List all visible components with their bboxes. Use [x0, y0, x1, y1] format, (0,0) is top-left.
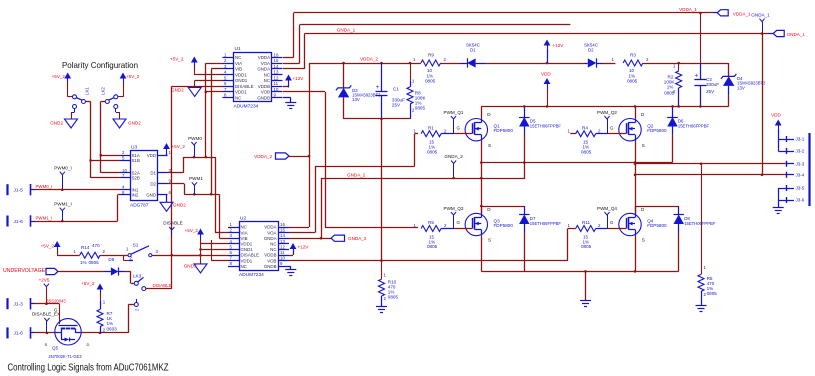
svg-text:VOA: VOA: [267, 230, 276, 235]
svg-text:2: 2: [444, 57, 447, 62]
svg-text:GND2: GND2: [173, 202, 186, 207]
svg-text:VDD1: VDD1: [235, 90, 247, 95]
svg-text:ADG787: ADG787: [130, 203, 149, 209]
svg-text:15ETH06FPPBF: 15ETH06FPPBF: [530, 123, 562, 128]
svg-text:8: 8: [230, 261, 233, 266]
svg-text:0805: 0805: [89, 260, 100, 265]
svg-text:G: G: [457, 125, 461, 130]
svg-text:D2: D2: [588, 48, 594, 53]
svg-text:+12V: +12V: [298, 245, 310, 250]
svg-text:S1: S1: [133, 243, 139, 249]
svg-text:G: G: [610, 220, 614, 225]
svg-text:FDP5800: FDP5800: [647, 223, 667, 228]
svg-text:DISABLE: DISABLE: [235, 84, 254, 89]
svg-text:PWM0: PWM0: [188, 136, 202, 141]
svg-text:2N7002K-T1-GE3: 2N7002K-T1-GE3: [49, 354, 83, 359]
svg-text:330uF: 330uF: [706, 82, 719, 87]
svg-text:+2V5: +2V5: [39, 278, 50, 283]
svg-text:D1: D1: [150, 171, 156, 176]
svg-text:GND2: GND2: [171, 88, 184, 93]
svg-text:470: 470: [92, 243, 100, 248]
svg-text:J3-4: J3-4: [796, 172, 805, 177]
svg-text:9: 9: [274, 93, 277, 98]
svg-text:VDD1: VDD1: [241, 242, 253, 247]
svg-text:DISABLE: DISABLE: [241, 253, 260, 258]
svg-text:VDDA_1: VDDA_1: [733, 11, 751, 16]
svg-text:0805: 0805: [664, 91, 675, 96]
svg-text:PWM0_I: PWM0_I: [54, 166, 72, 171]
svg-text:VDD: VDD: [541, 72, 551, 77]
svg-text:+5V_2: +5V_2: [170, 57, 184, 62]
svg-text:R14: R14: [81, 245, 90, 250]
svg-text:1: 1: [384, 273, 387, 278]
svg-text:DISABLE: DISABLE: [163, 221, 182, 226]
svg-text:15ETH06FPPBF: 15ETH06FPPBF: [530, 221, 562, 226]
svg-text:13: 13: [280, 239, 285, 244]
svg-text:1: 1: [568, 223, 571, 228]
svg-text:J1-5: J1-5: [14, 188, 24, 194]
svg-text:VDDA_1: VDDA_1: [679, 7, 697, 12]
svg-text:D1: D1: [470, 48, 476, 53]
svg-text:1%: 1%: [667, 85, 674, 90]
svg-text:+5V_2: +5V_2: [41, 244, 55, 249]
svg-text:GND1: GND1: [241, 247, 254, 252]
svg-text:2: 2: [103, 249, 106, 254]
svg-text:PWM1_I: PWM1_I: [54, 202, 72, 207]
svg-text:3: 3: [156, 249, 159, 254]
svg-text:25V: 25V: [706, 89, 715, 94]
svg-text:+5V_2: +5V_2: [81, 281, 95, 286]
svg-text:S2B: S2B: [132, 176, 140, 181]
svg-text:R3: R3: [630, 53, 636, 58]
svg-text:GNDA_2: GNDA_2: [348, 236, 367, 241]
svg-text:VOA: VOA: [261, 61, 270, 66]
svg-text:0805: 0805: [425, 78, 436, 83]
svg-text:2: 2: [598, 128, 601, 133]
svg-text:Q5: Q5: [52, 346, 59, 351]
svg-text:2: 2: [384, 296, 387, 301]
svg-text:VIB: VIB: [235, 67, 242, 72]
svg-text:LK2: LK2: [101, 87, 106, 95]
svg-text:S1B: S1B: [132, 158, 140, 163]
svg-text:R5: R5: [428, 220, 434, 225]
svg-text:VIB: VIB: [241, 236, 248, 241]
svg-text:2: 2: [598, 223, 601, 228]
svg-text:0805: 0805: [707, 291, 718, 296]
svg-text:VDD: VDD: [771, 113, 781, 118]
svg-text:R11: R11: [582, 220, 591, 225]
svg-text:1: 1: [74, 249, 77, 254]
svg-text:7: 7: [230, 256, 233, 261]
svg-text:14: 14: [280, 233, 285, 238]
svg-text:15ETH06FPPBF: 15ETH06FPPBF: [678, 123, 710, 128]
svg-text:8: 8: [224, 93, 227, 98]
svg-text:PWM_Q3: PWM_Q3: [444, 206, 464, 211]
svg-text:13V: 13V: [352, 97, 360, 102]
svg-text:VDDB: VDDB: [258, 84, 270, 89]
svg-text:GNDA: GNDA: [264, 236, 277, 241]
svg-text:+12V: +12V: [293, 76, 305, 81]
svg-text:GND: GND: [146, 193, 156, 198]
svg-text:FDP5800: FDP5800: [494, 223, 514, 228]
svg-text:2: 2: [646, 57, 649, 62]
svg-text:LK1: LK1: [85, 87, 90, 95]
svg-text:VDDA: VDDA: [258, 55, 270, 60]
svg-text:15: 15: [274, 58, 279, 63]
svg-text:10: 10: [280, 256, 285, 261]
svg-text:NC: NC: [264, 72, 270, 77]
svg-text:+: +: [376, 84, 380, 91]
svg-text:J3-3: J3-3: [796, 161, 805, 166]
svg-text:GNDA: GNDA: [257, 67, 270, 72]
svg-text:GND2: GND2: [184, 264, 197, 269]
svg-text:VDDB: VDDB: [264, 253, 276, 258]
svg-text:1: 1: [230, 222, 233, 227]
svg-text:VDDA: VDDA: [264, 225, 276, 230]
svg-text:11: 11: [274, 81, 279, 86]
svg-text:GNDB: GNDB: [264, 264, 277, 269]
svg-text:VDD1: VDD1: [241, 258, 253, 263]
svg-text:J3-6: J3-6: [796, 198, 805, 203]
svg-text:DISABLE_EX: DISABLE_EX: [32, 312, 60, 317]
svg-text:J1-6: J1-6: [14, 331, 24, 337]
svg-text:G: G: [610, 125, 614, 130]
svg-text:GNDA_1: GNDA_1: [787, 32, 806, 37]
svg-text:BSS20043: BSS20043: [46, 298, 67, 303]
svg-text:ADUM7234: ADUM7234: [234, 104, 259, 110]
svg-text:VDD: VDD: [147, 153, 156, 158]
svg-text:S: S: [488, 143, 491, 148]
svg-text:15ETH06FPPBF: 15ETH06FPPBF: [684, 221, 716, 226]
svg-text:12: 12: [280, 244, 285, 249]
svg-text:PWM1: PWM1: [189, 176, 203, 181]
svg-text:R9: R9: [428, 53, 434, 58]
svg-text:LK3: LK3: [133, 274, 142, 279]
svg-text:PWM_Q1: PWM_Q1: [444, 110, 464, 115]
svg-text:S: S: [45, 342, 48, 347]
svg-text:VDDA_2: VDDA_2: [360, 57, 378, 62]
svg-text:15: 15: [280, 228, 285, 233]
svg-text:+12V: +12V: [553, 43, 565, 48]
svg-text:NC: NC: [241, 225, 247, 230]
svg-text:1%: 1%: [107, 321, 114, 326]
svg-text:13: 13: [274, 70, 279, 75]
svg-text:5: 5: [224, 75, 227, 80]
svg-text:D: D: [641, 112, 645, 117]
svg-text:VDDA_2: VDDA_2: [254, 154, 272, 159]
svg-text:VIA: VIA: [241, 230, 248, 235]
svg-text:NC: NC: [241, 264, 247, 269]
svg-text:0805: 0805: [427, 149, 438, 154]
svg-text:1: 1: [568, 128, 571, 133]
svg-text:NC: NC: [264, 78, 270, 83]
svg-text:GNDA_2: GNDA_2: [444, 154, 463, 159]
svg-text:2: 2: [444, 128, 447, 133]
svg-text:D: D: [87, 342, 90, 347]
svg-text:6: 6: [230, 250, 233, 255]
svg-text:1: 1: [224, 53, 227, 58]
svg-text:VIA: VIA: [235, 61, 242, 66]
svg-text:16: 16: [274, 53, 279, 58]
svg-text:R1: R1: [428, 125, 434, 130]
svg-text:PWM0_I: PWM0_I: [36, 184, 53, 189]
svg-text:Controlling Logic Signals from: Controlling Logic Signals from ADuC7061M…: [8, 363, 169, 374]
svg-text:NC: NC: [270, 242, 276, 247]
svg-text:UNDERVOLTAGE: UNDERVOLTAGE: [3, 268, 46, 274]
svg-text:J3-2: J3-2: [796, 149, 805, 154]
svg-text:1: 1: [413, 57, 416, 62]
svg-text:U3: U3: [131, 145, 137, 151]
svg-text:+5V_2: +5V_2: [52, 74, 66, 79]
svg-text:1: 1: [126, 247, 129, 252]
svg-text:14: 14: [274, 64, 279, 69]
svg-text:FDP5800: FDP5800: [494, 128, 514, 133]
svg-text:VOB: VOB: [261, 90, 270, 95]
svg-text:S: S: [642, 238, 645, 243]
svg-text:Polarity Configuration: Polarity Configuration: [62, 60, 138, 70]
svg-text:J3-1: J3-1: [796, 137, 805, 142]
svg-text:1: 1: [704, 265, 707, 270]
svg-text:6: 6: [224, 81, 227, 86]
svg-text:16: 16: [280, 222, 285, 227]
svg-text:VOB: VOB: [267, 258, 276, 263]
svg-text:0805: 0805: [627, 78, 638, 83]
svg-text:13V: 13V: [737, 85, 745, 90]
svg-text:D: D: [487, 207, 491, 212]
svg-text:2: 2: [224, 58, 227, 63]
svg-text:+: +: [695, 73, 699, 80]
svg-text:3: 3: [230, 233, 233, 238]
svg-text:GND2: GND2: [128, 121, 141, 126]
svg-text:2: 2: [103, 328, 106, 333]
svg-text:GND2: GND2: [50, 121, 63, 126]
svg-text:G: G: [457, 220, 461, 225]
svg-text:0805: 0805: [427, 244, 438, 249]
svg-text:U2: U2: [240, 215, 246, 221]
svg-text:FDP5800: FDP5800: [647, 128, 667, 133]
svg-text:D: D: [487, 112, 491, 117]
svg-text:GNDA_1: GNDA_1: [751, 13, 770, 18]
svg-text:1: 1: [103, 300, 106, 305]
svg-text:2: 2: [444, 223, 447, 228]
svg-text:D9: D9: [108, 257, 114, 262]
svg-text:J1-3: J1-3: [14, 302, 24, 308]
svg-text:D: D: [641, 207, 645, 212]
svg-text:11: 11: [280, 250, 285, 255]
svg-text:U1: U1: [235, 46, 241, 52]
svg-text:GNDB: GNDB: [257, 95, 270, 100]
svg-text:D2: D2: [150, 181, 156, 186]
svg-text:R4: R4: [582, 125, 588, 130]
svg-text:+5V_2: +5V_2: [172, 144, 186, 149]
svg-text:GNDA_1: GNDA_1: [337, 27, 356, 32]
svg-text:1%: 1%: [80, 260, 87, 265]
svg-text:2: 2: [135, 308, 140, 311]
svg-text:S: S: [488, 238, 491, 243]
svg-text:DISABLE: DISABLE: [153, 283, 172, 288]
svg-text:1: 1: [414, 128, 417, 133]
svg-text:NC: NC: [235, 95, 241, 100]
svg-text:2: 2: [230, 228, 233, 233]
svg-text:ADUM7234: ADUM7234: [239, 272, 264, 278]
svg-text:9: 9: [280, 261, 283, 266]
svg-text:1: 1: [612, 57, 615, 62]
svg-text:0805: 0805: [415, 105, 426, 110]
svg-text:+5V_2: +5V_2: [185, 228, 199, 233]
svg-text:S: S: [642, 143, 645, 148]
svg-text:1: 1: [412, 78, 415, 83]
svg-text:+5V_2: +5V_2: [126, 74, 140, 79]
svg-text:0805: 0805: [581, 244, 592, 249]
svg-text:J1-6: J1-6: [14, 219, 24, 225]
svg-text:12: 12: [274, 75, 279, 80]
svg-text:GND1: GND1: [235, 78, 248, 83]
svg-text:VDD1: VDD1: [235, 72, 247, 77]
svg-text:2: 2: [130, 256, 133, 261]
svg-text:5: 5: [122, 155, 125, 160]
svg-text:5: 5: [230, 244, 233, 249]
svg-text:10: 10: [274, 87, 279, 92]
svg-text:J3-5: J3-5: [796, 186, 805, 191]
svg-text:C1: C1: [393, 86, 399, 91]
svg-text:0805: 0805: [388, 295, 399, 300]
svg-text:PWM1_I: PWM1_I: [36, 216, 53, 221]
svg-text:0805: 0805: [581, 149, 592, 154]
svg-text:NC: NC: [235, 55, 241, 60]
svg-text:PWM_Q4: PWM_Q4: [597, 206, 617, 211]
svg-text:GNDA_2: GNDA_2: [347, 173, 366, 178]
svg-text:25V: 25V: [392, 102, 401, 107]
svg-text:IN2: IN2: [132, 193, 139, 198]
svg-text:PWM_Q2: PWM_Q2: [597, 110, 617, 115]
svg-text:NC: NC: [270, 247, 276, 252]
svg-text:0603: 0603: [107, 327, 118, 332]
